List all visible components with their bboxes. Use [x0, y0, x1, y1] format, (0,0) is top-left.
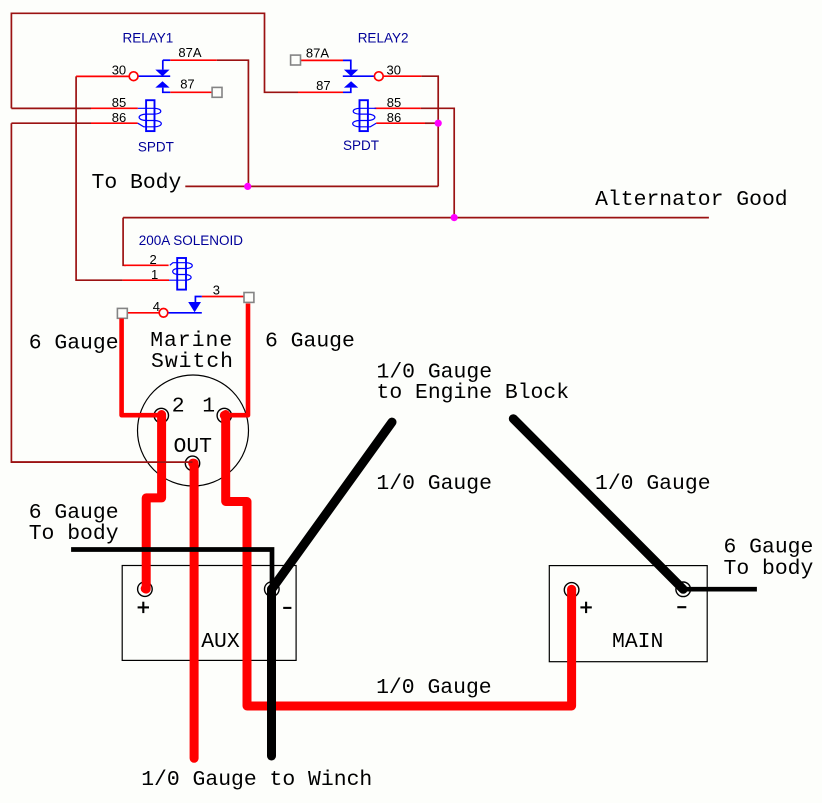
svg-text:4: 4	[153, 299, 160, 314]
wire 6ga switch terminal 1 right and up to solenoid pin3 square	[224, 304, 248, 416]
wire 1/0 black down to winch	[267, 589, 276, 756]
wire left edge: RELAY1 pin86 down to marine switch OUT	[11, 123, 100, 462]
svg-text:2: 2	[150, 252, 157, 267]
wire 6ga To body MAIN minus	[683, 587, 757, 592]
svg-text:3: 3	[213, 283, 220, 298]
battery AUX box	[122, 566, 296, 661]
wire solenoid pin3 red segment	[202, 296, 244, 298]
wire RELAY2 pin87A from stub square	[300, 59, 343, 61]
battery MAIN box	[549, 566, 707, 662]
terminal marine OUT	[185, 456, 199, 470]
svg-text:OUT: OUT	[174, 435, 213, 459]
terminal AUX plus	[138, 582, 153, 597]
wire 1/0 switch terminal 1 down jog down right up to MAIN plus	[226, 415, 572, 707]
wire RELAY2 pin87 red segment	[298, 91, 343, 93]
wire 1/0 engine block diagonal right	[513, 419, 683, 590]
svg-text:1/0 Gauge: 1/0 Gauge	[376, 472, 492, 496]
coil RELAY2	[353, 100, 377, 131]
node junction To Body / RELAY1 87A	[244, 183, 251, 190]
svg-text:86: 86	[387, 110, 401, 125]
wire 1/0 switch terminal 2 down jog to AUX plus	[146, 415, 161, 590]
node RELAY2 pin30 circle	[374, 72, 383, 81]
wire RELAY1 pin30 down to solenoid pin1	[76, 76, 123, 280]
wire RELAY1 pin30	[76, 75, 129, 77]
svg-text:To body: To body	[29, 522, 119, 546]
wire RELAY2 pin30 red segment	[383, 75, 421, 77]
wire RELAY1 pin86 red segment	[91, 122, 138, 124]
svg-text:87A: 87A	[178, 45, 201, 60]
svg-text:1: 1	[202, 395, 215, 419]
node solenoid pin4 stub square	[117, 308, 127, 318]
node red dot MAIN plus	[567, 585, 576, 594]
label plus MAIN	[580, 602, 591, 613]
svg-text:30: 30	[387, 63, 401, 78]
coil RELAY1	[138, 100, 162, 131]
wire solenoid pin2 red segment	[124, 264, 169, 266]
wire Alternator Good down to solenoid pin2	[123, 218, 126, 266]
svg-text:RELAY2: RELAY2	[358, 31, 409, 46]
label minus AUX	[283, 607, 291, 609]
node RELAY1 pin30 circle	[129, 72, 138, 81]
svg-text:SPDT: SPDT	[343, 138, 379, 153]
svg-text:87A: 87A	[306, 46, 329, 61]
contact arrows RELAY2	[344, 70, 358, 88]
wire 6ga solenoid pin4 square down to switch terminal 2	[122, 319, 162, 416]
solenoid contact blue	[168, 297, 202, 313]
svg-text:RELAY1: RELAY1	[123, 31, 174, 46]
terminal marine 2	[154, 408, 168, 422]
terminal AUX minus	[265, 582, 280, 597]
marine switch body circle	[138, 375, 249, 486]
wire RELAY1 pin85 stub left dark segment	[11, 107, 91, 109]
svg-text:85: 85	[387, 95, 401, 110]
svg-text:6 Gauge: 6 Gauge	[724, 536, 814, 560]
terminal MAIN plus	[564, 583, 579, 598]
svg-text:To Body: To Body	[92, 171, 182, 195]
wire To Body line	[185, 185, 438, 187]
solenoid contact arrow	[188, 302, 201, 312]
wire 6ga To body AUX minus	[71, 550, 272, 586]
node solenoid pin3 stub square	[244, 293, 254, 303]
node junction RELAY2 85 / Alternator Good	[451, 214, 458, 221]
svg-text:MAIN: MAIN	[612, 630, 663, 654]
wire RELAY1 pin87 to stub square	[170, 91, 212, 93]
svg-text:Alternator Good: Alternator Good	[595, 188, 788, 212]
wire RELAY2 pin86 red segment	[376, 122, 425, 124]
node RELAY1 pin87 stub square	[212, 87, 222, 97]
wire RELAY1 pin87A red segment	[170, 59, 217, 61]
coil solenoid U3	[169, 258, 192, 290]
wire thin dark red to OUT terminal (over red cable)	[11, 461, 192, 463]
svg-text:85: 85	[112, 95, 126, 110]
svg-text:SPDT: SPDT	[138, 139, 174, 154]
wire solenoid pin4 red segment	[127, 312, 159, 314]
label minus MAIN	[677, 606, 686, 608]
svg-text:1/0 Gauge: 1/0 Gauge	[595, 472, 711, 496]
svg-text:1/0 Gauge to Winch: 1/0 Gauge to Winch	[141, 768, 372, 792]
svg-text:87: 87	[316, 78, 330, 93]
wire Alternator Good line	[123, 217, 709, 219]
contact arrows RELAY1	[155, 70, 169, 88]
wire RELAY2 pin86 dark segment to junction	[425, 122, 438, 124]
wire RELAY1 pin87A right dark segment, down to To Body junction	[217, 60, 249, 186]
wire RELAY1 pin86 left dark segment	[11, 122, 91, 124]
svg-text:6 Gauge: 6 Gauge	[29, 331, 119, 355]
wire solenoid pin1 red segment	[123, 279, 169, 281]
op contact RELAY1 blue lines	[138, 60, 170, 92]
svg-text:200A SOLENOID: 200A SOLENOID	[139, 233, 244, 248]
node RELAY2 pin87A stub square	[291, 55, 301, 65]
node junction RELAY2 86 / 30	[435, 120, 442, 127]
svg-text:2: 2	[172, 395, 185, 419]
svg-text:1: 1	[151, 267, 158, 282]
node red dot marine terminal 2	[157, 411, 166, 420]
terminal MAIN minus	[676, 582, 691, 597]
node red dot marine terminal 1	[220, 411, 229, 420]
node red dot AUX plus	[141, 584, 150, 593]
wire 1/0 engine block diagonal left	[272, 422, 392, 589]
svg-text:1/0 Gauge: 1/0 Gauge	[376, 676, 492, 700]
wire RELAY1 pin85 red segment	[91, 107, 138, 109]
terminal marine 1	[217, 408, 231, 422]
node red dot marine OUT	[188, 459, 197, 468]
wire RELAY2 pin85 red segment	[375, 107, 421, 109]
node solenoid pin4 circle	[159, 309, 168, 318]
wire top bus: RELAY1 pin85 up left edge, across top, down to RELAY2 pin87	[11, 13, 298, 108]
svg-text:86: 86	[112, 110, 126, 125]
op contact RELAY2 blue lines	[343, 60, 375, 92]
wire RELAY2 pin30 dark segment down to To Body line	[421, 76, 438, 186]
label plus AUX	[138, 602, 149, 613]
wire 1/0 OUT down to winch	[190, 463, 199, 758]
svg-text:30: 30	[112, 62, 126, 77]
svg-text:AUX: AUX	[201, 630, 240, 654]
svg-text:to Engine Block: to Engine Block	[377, 381, 570, 405]
svg-text:Switch: Switch	[151, 350, 234, 374]
wire RELAY2 pin85 dark segment down to Alternator Good line	[421, 108, 454, 217]
svg-text:To body: To body	[724, 557, 814, 581]
svg-text:87: 87	[180, 77, 194, 92]
svg-text:6 Gauge: 6 Gauge	[265, 329, 355, 353]
